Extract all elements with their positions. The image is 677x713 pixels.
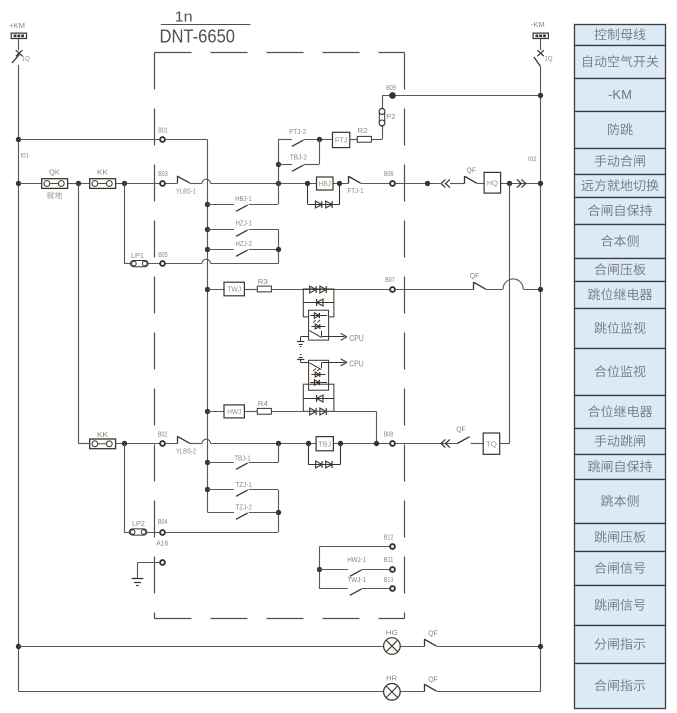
wire B09 row [382, 95, 541, 97]
junction rail HZJ-1 [205, 227, 210, 232]
table row 防跳 [575, 112, 666, 149]
table row 跳位监视 [575, 309, 666, 349]
junction right bus B09 row [538, 93, 543, 98]
wire HWJ row down to trip row [376, 411, 378, 443]
svg-text:R3: R3 [258, 277, 268, 286]
node B07 [390, 287, 395, 292]
wire QF to TQ [471, 443, 483, 445]
junction KK - LP1 branch [122, 181, 127, 186]
left bus [18, 65, 20, 692]
junction rail TWJ row [205, 287, 210, 292]
junction signal branch [317, 567, 322, 572]
junction FTJ-2/TBJ-2 join [317, 137, 322, 142]
wire TZJ branch vertical [278, 490, 280, 532]
junction TBJ diode branch left [306, 441, 311, 446]
node B03 [160, 181, 165, 186]
trip-position contact TZJ-2 [236, 513, 248, 519]
svg-text:HBJ: HBJ [319, 179, 332, 188]
wire R3 to B07 [271, 289, 473, 291]
wire KK to YLBS-2 [116, 443, 178, 445]
optocoupler output to CPU top [321, 331, 323, 337]
table row 控制母线 [575, 25, 666, 46]
wire HQ junction down to TQ [509, 183, 511, 443]
wire HZJ-1 right [249, 229, 278, 231]
junction B09 at node [390, 93, 394, 97]
svg-text:-KM: -KM [531, 20, 545, 29]
junction HWJ drop [374, 441, 379, 446]
junction left bus B01 row [16, 137, 21, 142]
wire HBJ-1 right [249, 204, 278, 206]
title divider [161, 24, 251, 26]
wire TWJ to R3 [244, 289, 257, 291]
wire rail to HWJ [208, 411, 225, 413]
junction right bus close row [538, 181, 543, 186]
wire B13 row left [319, 588, 348, 590]
junction trip anti-pump branch [276, 441, 281, 446]
trip-hold contact TBJ-2 [292, 165, 304, 171]
node B12 [390, 544, 395, 549]
svg-text:FTJ-1: FTJ-1 [348, 186, 364, 195]
optocoupler output to CPU bottom [321, 362, 323, 368]
junction right bus B07 row [538, 287, 543, 292]
wire FTJ-2/TBJ-2 join vertical [319, 140, 321, 164]
dashed enclosure right edge [404, 53, 406, 619]
wire rail to TWJ [208, 289, 225, 291]
wire TZJ-2 left [208, 512, 234, 514]
table row 跳闸自保持 [575, 455, 666, 480]
svg-text:B01: B01 [158, 125, 168, 134]
junction HQ output [507, 181, 512, 186]
wire B12 row [319, 546, 392, 548]
trip-signal contact TWJ-1 [350, 589, 362, 595]
trip coil TQ [483, 433, 500, 454]
wire TBJ-1 right [249, 462, 278, 464]
junction rail TZJ-1 [205, 487, 210, 492]
trip-hold relay TBJ [316, 437, 333, 451]
svg-text:R4: R4 [258, 399, 268, 408]
dashed enclosure left edge [154, 53, 156, 619]
ground optocoupler top [301, 336, 309, 338]
node B05 [160, 261, 165, 266]
wire HZJ-2 left [208, 249, 234, 251]
anti-pump contact FTJ-2 [292, 140, 304, 146]
closing coil HQ [484, 172, 501, 193]
HBJ branch diodes [307, 183, 309, 204]
svg-text:1Q: 1Q [22, 57, 30, 63]
wire fuse to breaker [18, 39, 20, 51]
junction left bus close row [16, 181, 21, 186]
svg-text:B05: B05 [158, 250, 168, 259]
wire HZJ-2 right [249, 249, 278, 251]
wire hop over rail at trip row [202, 439, 211, 443]
wire LP2 branch down [124, 444, 126, 532]
wire B05 row right [211, 263, 278, 265]
pressure-release switch YLBS-2 [177, 436, 179, 444]
svg-text:-KM: -KM [608, 87, 632, 102]
svg-text:B07: B07 [385, 275, 395, 284]
wire YLBS-2 to hop [190, 443, 202, 445]
wire trip row middle [211, 443, 458, 445]
svg-text:HWJ-1: HWJ-1 [347, 555, 366, 564]
wire B04 row [147, 532, 278, 534]
wire hop to right bus B07 [523, 289, 540, 291]
svg-text:TWJ: TWJ [227, 285, 241, 294]
svg-text:HG: HG [386, 628, 398, 637]
svg-text:I02: I02 [528, 157, 537, 163]
svg-text:QF: QF [428, 674, 438, 683]
junction rail HWJ row [205, 409, 210, 414]
svg-text:KK: KK [97, 430, 108, 439]
node A16 [160, 560, 165, 565]
relay coil HBJ [317, 177, 334, 190]
wire TBJ-2 left [278, 164, 292, 166]
wire KK branch down to LP1 [124, 183, 126, 263]
junction TBJ diode branch right [338, 441, 343, 446]
svg-text:YLBS-1: YLBS-1 [176, 186, 196, 195]
resistor R4 [257, 408, 271, 414]
svg-text:1n: 1n [175, 9, 193, 25]
wire B11 row left [319, 569, 348, 571]
junction TZJ-2 right [276, 510, 281, 515]
breaker aux contact QF HR [424, 684, 426, 692]
svg-text:1Q: 1Q [545, 57, 553, 63]
wire B13 row right [361, 588, 392, 590]
svg-text:TBJ-1: TBJ-1 [234, 454, 251, 463]
wire QF to hop B07 [486, 289, 503, 291]
table row 远方就地切换 [575, 175, 666, 198]
svg-text:CPU: CPU [349, 359, 364, 368]
wire QK branch down to KK lower [78, 183, 80, 443]
node B13 [390, 586, 395, 591]
wire close row left [19, 183, 177, 185]
dashed enclosure bottom edge [155, 618, 405, 620]
anti-pump contact FTJ-1 [348, 176, 350, 184]
svg-text:QF: QF [467, 165, 477, 174]
svg-text:B12: B12 [384, 532, 394, 541]
self-hold contact HBJ-1 [236, 205, 248, 211]
svg-text:B06: B06 [384, 169, 394, 178]
svg-text:HZJ-2: HZJ-2 [236, 239, 253, 248]
monitor diodes bottom pair [310, 408, 316, 415]
breaker 1Q contact cross right [537, 50, 544, 56]
breaker aux contact QF close [464, 176, 466, 184]
changeover switch QK [42, 179, 68, 189]
svg-text:P2: P2 [386, 112, 395, 121]
wire HR row left [19, 691, 384, 693]
pressure plate P2 [379, 108, 384, 126]
wire YLBS-1 to hop [190, 183, 202, 185]
wire hop over rail at B05 row [202, 259, 211, 263]
table row 合闸压板 [575, 259, 666, 282]
svg-text:YLBS-2: YLBS-2 [176, 447, 196, 456]
wire HG row left [19, 646, 384, 648]
wire FTJ to R2 [350, 139, 358, 141]
svg-text:CPU: CPU [349, 334, 364, 343]
breaker 1Q blade [12, 54, 19, 63]
junction KK - LP2 branch [122, 441, 127, 446]
svg-text:HR: HR [386, 674, 398, 683]
label jiudi (local) [47, 192, 62, 199]
optocoupler box top [309, 310, 329, 340]
anti-pump relay FTJ [333, 132, 350, 147]
wire HBJ-1 up to close row [278, 183, 280, 204]
wire TZJ-2 right [249, 512, 278, 514]
wire hop over rail at close row [202, 179, 211, 183]
svg-text:B13: B13 [384, 575, 394, 584]
fuse +KM [11, 33, 26, 38]
table row 手动跳闸 [575, 429, 666, 455]
wire anti-pump branch vertical [278, 140, 280, 184]
wire chevrons to QF [450, 183, 465, 185]
wire FTJ-1 to B06 [361, 183, 440, 185]
close-position contact HZJ-2 [236, 250, 248, 256]
junction right bus HG row [538, 644, 543, 649]
wire fuse to breaker right [540, 39, 542, 51]
junction TBJ-2 left [276, 162, 281, 167]
monitor bridge frame bottom [303, 384, 334, 411]
table row 合闸信号 [575, 552, 666, 586]
table row 跳本侧 [575, 480, 666, 524]
monitor bridge frame top [303, 289, 334, 317]
wire QF to HQ [477, 183, 484, 185]
wire TQ to riser [500, 443, 510, 445]
junction HZJ-2 right [276, 247, 281, 252]
wire lamp to QF HG [400, 646, 424, 648]
wire TBJ-2 right [304, 164, 319, 166]
svg-text:B03: B03 [158, 169, 168, 178]
junction QK-KK [76, 181, 81, 186]
wire FTJ-2 left [278, 139, 292, 141]
wire HZJ-1 left [208, 229, 234, 231]
table row 合位监视 [575, 349, 666, 396]
breaker aux contact QF B07 [473, 282, 475, 290]
wire P2 to B09 row [382, 95, 384, 108]
node B02 [160, 441, 165, 446]
closing pressure plate LP1 [130, 261, 148, 267]
pressure-release switch YLBS-1 [177, 176, 179, 184]
wire R2 to P2 [371, 139, 382, 141]
wire lamp to QF HR [400, 691, 424, 693]
svg-text:TQ: TQ [486, 439, 497, 448]
close-position contact HZJ-1 [236, 230, 248, 236]
svg-text:R2: R2 [358, 126, 368, 135]
wire HZJ branch vertical [278, 229, 280, 263]
resistor R2 [357, 136, 371, 142]
svg-text:TWJ-1: TWJ-1 [347, 575, 366, 584]
svg-text:LP2: LP2 [132, 519, 145, 528]
wire close row middle [211, 183, 349, 185]
svg-text:KK: KK [97, 168, 108, 177]
svg-text:TBJ-2: TBJ-2 [290, 152, 307, 161]
wire TZJ-1 right [249, 489, 278, 491]
svg-text:FTJ-2: FTJ-2 [289, 127, 306, 136]
dashed enclosure top edge [155, 52, 405, 54]
wire TBJ-1 up to trip row [278, 444, 280, 463]
indicator lamp HG [384, 638, 401, 655]
node B01 [160, 137, 165, 142]
breaker aux contact QF HG [424, 639, 426, 647]
inner positive rail [207, 140, 209, 513]
fuse -KM [533, 33, 548, 38]
table row 自动空气开关 [575, 46, 666, 79]
junction HBJ diode branch left [305, 181, 310, 186]
svg-text:B09: B09 [386, 83, 396, 92]
right bus [540, 66, 542, 692]
svg-text:B04: B04 [158, 517, 168, 526]
svg-text:QF: QF [428, 629, 438, 638]
trip-position relay TWJ [224, 282, 244, 296]
indicator lamp HR [384, 684, 401, 701]
table row 合本侧 [575, 225, 666, 259]
svg-text:DNT-6650: DNT-6650 [160, 26, 236, 47]
wire TZJ-1 left [208, 489, 234, 491]
wire hop over HQ-TQ link [503, 279, 523, 289]
node B06 [390, 181, 395, 186]
wire HQ to bus [501, 183, 541, 185]
node B08 [390, 441, 395, 446]
svg-text:B02: B02 [158, 429, 168, 438]
close-signal contact HWJ-1 [350, 570, 362, 576]
resistor R3 [257, 286, 271, 292]
table row 分闸指示 [575, 626, 666, 664]
connector chevrons to bus [517, 179, 521, 187]
breaker 1Q contact cross [16, 50, 23, 56]
wire QF HR to right bus [437, 691, 541, 693]
table row -KM [575, 79, 666, 112]
wire LP1 to hop [148, 263, 202, 265]
svg-text:LP1: LP1 [131, 251, 144, 260]
svg-text:B11: B11 [384, 555, 394, 564]
node B11 [390, 567, 395, 572]
svg-text:I01: I01 [21, 154, 30, 160]
wire R4 right [271, 411, 376, 413]
wire HBJ-1 left [208, 204, 234, 206]
ground A16 [132, 578, 144, 580]
wire TBJ-1 left [208, 462, 234, 464]
table row 跳闸信号 [575, 586, 666, 626]
wire HWJ to R4 [244, 411, 257, 413]
wire signal branch vertical [319, 547, 321, 589]
trip-position contact TZJ-1 [236, 490, 248, 496]
wire FTJ-2 right [304, 139, 333, 141]
wire B01 row [19, 139, 208, 141]
connector chevrons close row [441, 179, 445, 187]
breaker aux contact QF trip [457, 437, 469, 444]
svg-text:FTJ: FTJ [335, 136, 348, 145]
table row 手动合闸 [575, 149, 666, 175]
junction rail HBJ-1 [205, 202, 210, 207]
monitor diodes top pair [310, 286, 316, 293]
svg-text:HWJ: HWJ [227, 407, 241, 416]
junction left bus HG row [16, 644, 21, 649]
optocoupler box bottom [309, 360, 329, 390]
table row 跳位继电器 [575, 282, 666, 309]
table row 合闸自保持 [575, 198, 666, 225]
wire B11 row right [361, 569, 392, 571]
table row 跳闸压板 [575, 524, 666, 552]
junction rail TBJ-1 [205, 460, 210, 465]
table row 合位继电器 [575, 396, 666, 429]
svg-text:TBJ: TBJ [319, 439, 332, 448]
connector chevrons trip row [441, 439, 445, 447]
node B04 [160, 530, 165, 535]
TBJ branch diodes [308, 444, 310, 465]
svg-text:TZJ-2: TZJ-2 [235, 503, 252, 512]
wire A16 to ground [137, 562, 159, 564]
junction B06 row [425, 181, 430, 186]
svg-text:HZJ-1: HZJ-1 [236, 218, 253, 227]
svg-text:B08: B08 [384, 429, 394, 438]
close-position relay HWJ [224, 405, 244, 418]
svg-text:QF: QF [470, 271, 480, 280]
table row 合闸指示 [575, 664, 666, 709]
svg-text:QK: QK [49, 168, 60, 177]
svg-text:HQ: HQ [487, 178, 498, 187]
wire QF HG to right bus [437, 646, 541, 648]
breaker 1Q blade right [534, 57, 541, 66]
svg-text:TZJ-1: TZJ-1 [235, 480, 252, 489]
svg-text:A16: A16 [156, 539, 168, 548]
svg-text:+KM: +KM [9, 21, 25, 30]
node B09 [390, 93, 395, 98]
junction rail HZJ-2 [205, 247, 210, 252]
trip-hold contact TBJ-1 [236, 463, 248, 469]
svg-text:QF: QF [456, 425, 466, 434]
ground optocoupler bottom [300, 354, 301, 356]
control switch KK trip contact [90, 439, 116, 449]
trip pressure plate LP2 [129, 529, 147, 535]
control switch KK [90, 179, 116, 189]
svg-text:HBJ-1: HBJ-1 [235, 194, 252, 203]
junction HBJ diode branch right [337, 181, 342, 186]
junction anti-pump branch [276, 181, 281, 186]
